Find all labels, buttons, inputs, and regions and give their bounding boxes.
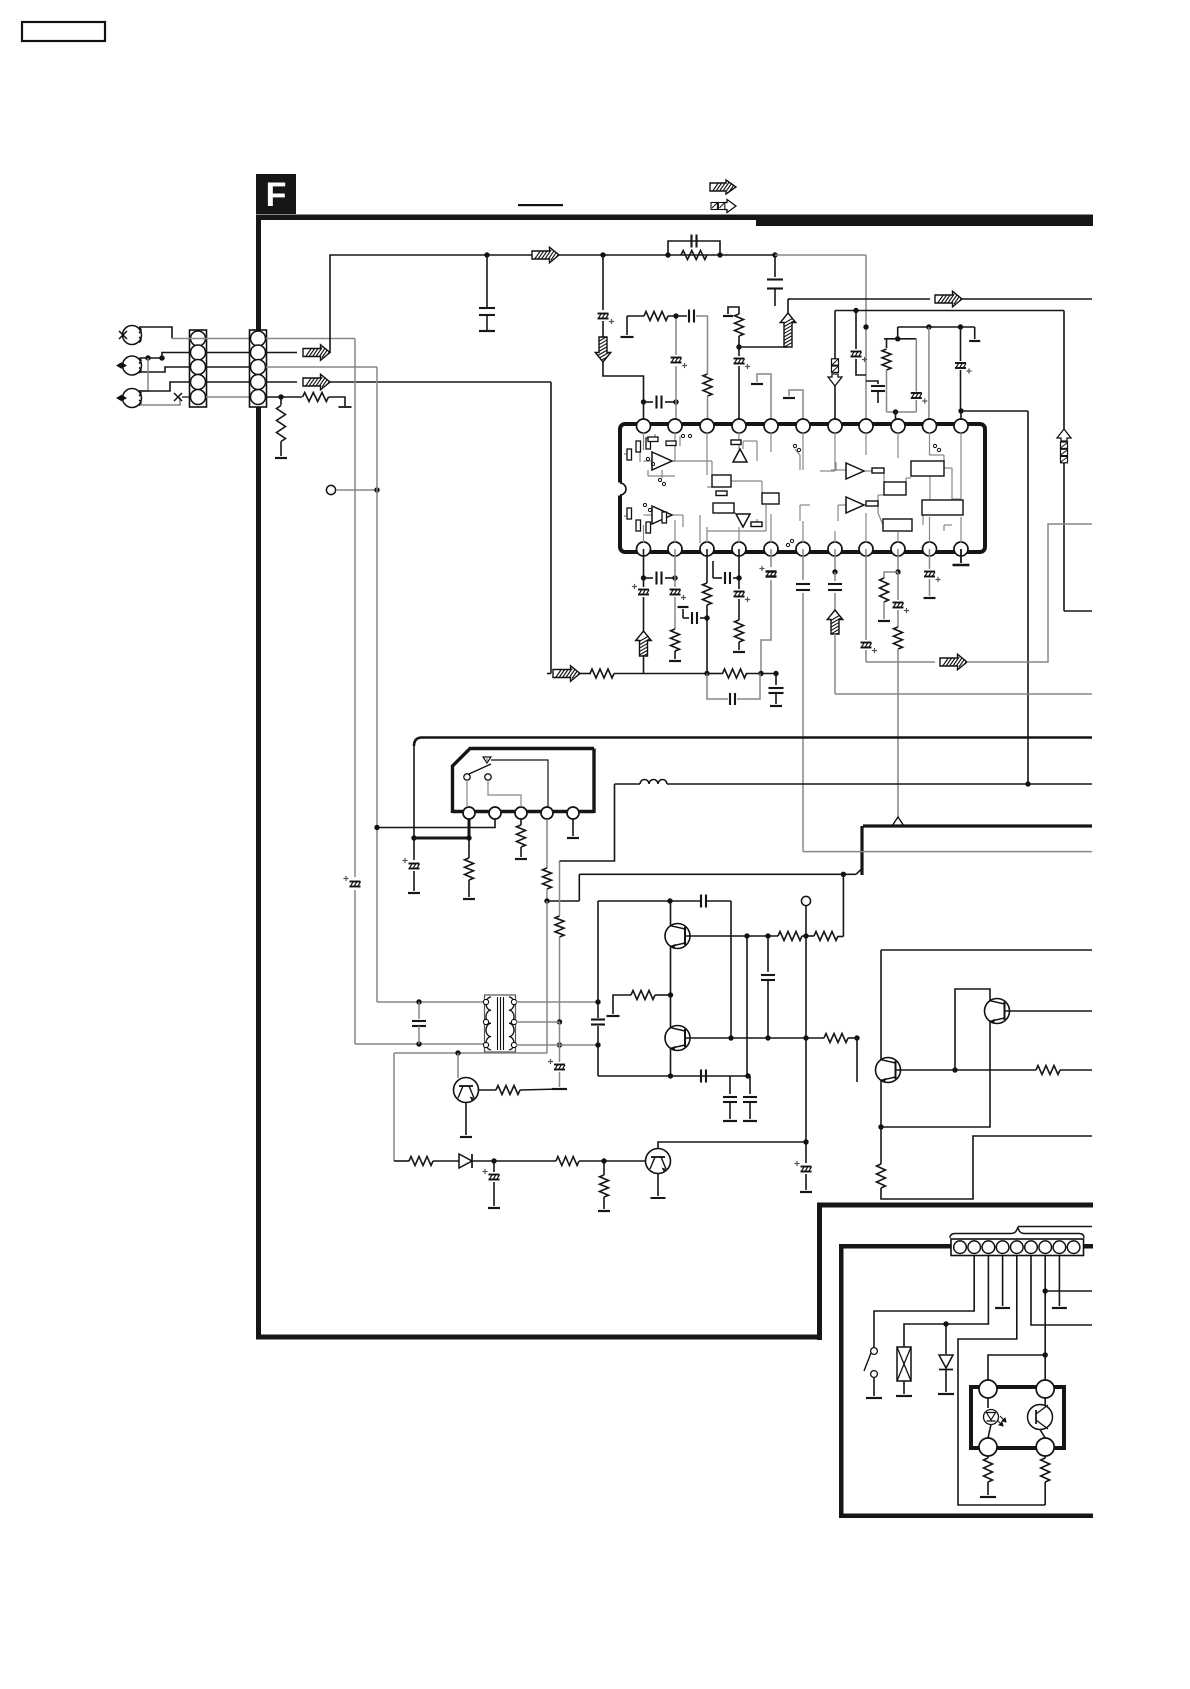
inner box bottom [839,1514,1093,1519]
wire x856 low [856,359,866,375]
capacitor C135 [700,1070,702,1083]
opto pins [979,1380,997,1398]
junction [736,575,741,580]
junction [958,408,963,413]
wire cn3 p6 [1031,1256,1092,1326]
wire y1053 [394,1052,547,1054]
ecap C116 [643,578,645,587]
junction [411,835,416,840]
transistor Q5 [876,1058,901,1083]
wire pin8 top [865,255,867,420]
wire sw p4b [547,900,579,902]
junction [895,336,900,341]
wire rect left [597,901,599,1018]
wire p6 down [802,549,804,580]
resistor R127 [556,1157,579,1166]
junction [765,1035,770,1040]
wire R101 end [329,397,346,406]
wire to arrow1 [266,352,297,354]
resistor R114 [723,669,747,678]
junction [667,898,672,903]
junction [374,825,379,830]
junction [803,1139,808,1144]
capacitor C109 [644,401,654,403]
wire net-C [789,298,930,300]
wire p10 low [929,579,931,596]
wire T1 right bot [516,1044,598,1046]
wire pin1 net [602,255,604,310]
junction [863,324,868,329]
ground [800,1191,812,1193]
wire led bot [988,1425,991,1439]
terminal stub p5 [757,374,771,420]
wire net-F [961,410,1028,412]
wire row b2 [494,1160,556,1162]
wire arrow2 net h [547,673,551,675]
switch triangle [483,757,491,763]
wire p1 down [643,549,645,578]
wire cn3-sw [874,1256,974,1348]
wire p9 long [897,649,899,818]
wire cn3 p4 gnd [1002,1256,1004,1307]
wire TP1 [336,489,377,491]
wire x1028 [1027,411,1029,784]
bus y737 [414,738,1092,747]
wire qr1 out [896,1069,1037,1071]
junction [841,872,846,877]
wire q4 emit [657,1174,659,1197]
wire p2 down [674,549,676,578]
x mark [174,393,182,401]
transistor Q2 [665,1026,690,1051]
wire row bl [394,1160,409,1162]
ecap C139 [493,1161,495,1172]
wire p1 low [643,655,645,674]
junction [466,835,471,840]
wire d-out [472,1160,494,1162]
wire T1 right mid [516,1021,560,1023]
wire net-D out [1064,610,1092,612]
junction [772,252,777,257]
resistor R121 [814,932,838,941]
junction [943,1321,948,1326]
resistor R119 [496,1086,520,1095]
wire r120-121 [802,935,814,937]
terminal bar [339,406,352,408]
capacitor C133 [700,895,702,908]
wire r106-ecap [738,336,740,356]
junction [668,992,673,997]
capacitor C137 [749,1076,751,1094]
ecap C128 [924,571,935,573]
resistor R125 [877,1164,886,1188]
transformer terminals [483,999,488,1004]
ground [878,620,890,622]
wire p4 down [738,549,740,578]
transistor Q6 [985,999,1010,1024]
wire net-A vertical [354,339,356,878]
resistor R117 [543,868,552,889]
border bottom [256,1335,822,1340]
resistor R128 [603,1161,605,1175]
wire sw p4 [546,819,548,868]
wire p7 branch1 [1045,1290,1092,1292]
strip brace [950,1227,1084,1238]
resistor R129 [987,1456,989,1458]
junction [952,1067,957,1072]
wire fuse-gnd [903,1381,905,1394]
wire Q3 coll2 [520,1089,560,1090]
wire net-A [266,338,355,340]
wire CN1-CN2 1 [172,338,249,340]
ecap C122 [738,578,740,589]
switch block S101 outline [453,749,595,814]
door switch S102 [871,1348,878,1355]
resistor R109 [703,583,712,605]
wire to arrow2 [266,381,297,383]
svg-text:F: F [266,176,287,214]
wire x731 [730,901,732,1038]
ground [669,660,681,662]
loop cap [707,674,728,700]
resistor R112 [897,610,899,627]
wire J2 up [162,353,189,359]
junction [673,399,678,404]
bus y826 drop [860,826,863,875]
wire sw p2 [377,819,495,828]
section label F [256,174,296,214]
wire net-B vertical [376,367,378,1002]
wire y851 [803,851,1092,853]
wire J2-CN1 [140,357,162,359]
wire qr1 emit [880,1081,882,1128]
junction [853,308,858,313]
ground [567,837,579,839]
wire rect bottom [598,1075,750,1077]
ecap C110 [671,357,682,359]
ecap C131 [559,1022,561,1062]
wire p6 long [802,593,804,852]
wire p3 low [706,605,708,674]
optocoupler PC101 box [971,1387,1064,1448]
wire row b3 [579,1160,646,1162]
terminal bar [651,1197,666,1199]
junction [854,1035,859,1040]
resistor R123 [824,1034,848,1043]
ic pins top [637,419,651,433]
wire row3 [746,673,776,675]
loop feed [897,327,899,339]
capacitor C134 [767,936,769,972]
wire r113 in [580,673,591,675]
junction [673,313,678,318]
wire qr1 top [880,950,882,1060]
ground [980,1496,996,1498]
junction [704,671,709,676]
wire CN2 pin5 [266,396,302,398]
wire pin1 net3 [603,362,644,402]
wire pt top [1044,1398,1046,1405]
inductor L101 [615,783,641,785]
switch wiring [486,757,488,762]
junction [736,344,741,349]
capacitor C120 [418,1002,420,1019]
terminal stub ne [974,327,976,339]
resistor R111 [884,572,898,578]
wire q1-q2 [670,947,672,1028]
capacitor C107 stub [866,381,878,384]
junction [832,569,837,574]
junction [374,487,379,492]
junction [803,1035,808,1040]
wire pin1 in [643,402,645,420]
transformer T101 body [485,995,516,1052]
ic internal components [652,452,672,470]
junction [484,252,489,257]
transistor Q4 [646,1149,671,1174]
wire r104 l [627,315,644,317]
wire Q2 out [685,1037,824,1039]
ground [479,330,495,332]
wire r104-c [668,315,687,317]
ground [733,651,745,653]
ecap C112 [734,358,745,360]
junction [773,671,778,676]
segmented arrow A12 up [1057,429,1071,441]
wire bus chamfer [856,869,862,875]
wire to arrow A6 [739,346,788,348]
wire x961 b [960,370,962,411]
wire Q2 emit [670,1049,672,1077]
jack J2 [123,356,142,375]
junction [744,933,749,938]
resistor R105 [703,374,712,396]
ecap C126 [861,642,872,644]
wire pin10 top [928,327,930,419]
capacitor C105 stub [774,255,776,277]
junction [758,671,763,676]
terminal stub p6 [789,390,803,420]
ecap C138 [805,1142,807,1163]
wire net-B to T1 [377,1001,484,1003]
connector CN2 [250,330,267,407]
wire q4 coll [658,1142,806,1149]
loop top wire [884,338,916,340]
wire Q3 coll [479,1089,497,1091]
wire net-H out [967,524,1092,662]
ic pins bottom [637,542,651,556]
resistor R124 [1036,1066,1060,1075]
segmented arrow (top note 2) [724,200,736,213]
inner box top [839,1244,1093,1249]
wire pin11 top [960,411,962,419]
thick wire sw [414,837,469,840]
wire qr1 out2 [1060,1069,1092,1071]
junction [672,575,677,580]
wire arrow2 out [330,381,551,383]
junction [728,1035,733,1040]
page frame reference box [22,22,105,41]
wire x856 branch [855,311,857,350]
ecap C127 [897,572,899,600]
junction [278,394,283,399]
wire pin4 in [738,366,740,420]
wire CN1-CN2 5 [206,396,250,398]
resistor R115 [468,838,470,858]
ground [488,1207,500,1209]
wire net-D vert [1063,311,1065,430]
ground [598,1210,610,1212]
junction [544,898,549,903]
ic IC101 body [620,424,985,552]
wire pt bot [1040,1430,1045,1439]
wire net-B [266,366,377,368]
junction [1025,781,1030,786]
wire cn3 p8 gnd [1058,1256,1060,1307]
resistor R106 [735,314,744,336]
ecap C113 [915,339,917,392]
wire pin2 in [675,402,677,420]
wire net-D [835,310,1064,312]
junction [159,355,164,360]
junction [704,615,709,620]
wire x961 [960,327,962,361]
wire qr2 emit [881,1022,990,1128]
phototransistor [1028,1405,1053,1430]
ground [924,597,936,599]
wire Q1 base [670,901,672,926]
wire qr low [880,1127,882,1164]
wire row2 [707,673,723,675]
junction [765,933,770,938]
wire p11 down [960,549,962,563]
wire CN1-CN2 2 [206,352,250,354]
capacitor C136 [729,1076,731,1094]
junction [416,1041,421,1046]
capacitor C132 [591,1018,605,1020]
wire J1-CN1 [139,327,172,339]
border bottom-right top [817,1203,1093,1208]
capacitor C121 [733,577,739,579]
ecap C114 [955,362,966,364]
wire Q3 emit [465,1103,467,1136]
connector CN3 [951,1239,1084,1256]
wire pin7 in [834,386,836,420]
junction [641,399,646,404]
test point TP1 [326,485,335,494]
junction [595,1042,600,1047]
wire pin2 up2 [675,316,677,355]
terminal bar [552,1088,567,1090]
wire arrow2 net vert [550,382,552,674]
resistor R101 [303,393,329,402]
border left [256,215,261,1340]
ground [275,457,287,459]
transistor Q3 [454,1078,479,1103]
ground [866,1397,882,1399]
wire q2 out2 [848,1037,857,1039]
ecap C130 [413,838,415,860]
wire J2-CN1b [140,367,189,372]
capacitor C104 [668,241,720,255]
wire cn3 p7 [1044,1256,1046,1386]
test point TP2 [801,896,810,905]
wire p7 low [834,634,836,694]
ground [896,1395,912,1397]
wire J3-CN1b [140,397,180,405]
jack J1 [123,326,142,345]
wire c111 out [696,316,708,374]
wire pin7 top [834,311,836,363]
wire x747 [746,936,748,1076]
ground [515,858,527,860]
wire p10 down [929,549,931,569]
wire x580 up [578,874,580,901]
resistor R120 [778,932,802,941]
capacitor C125 [828,583,842,585]
wire sw p4 down [546,901,548,1053]
switch contacts [464,774,470,780]
wire brace out [1018,1226,1092,1228]
junction [557,1042,562,1047]
wire x955 [955,989,990,1070]
wire T1 right top [516,1001,598,1003]
wire Q3 base [457,1053,459,1078]
capacitor C124 [796,583,810,585]
fuse F101 [897,1347,911,1381]
junction [926,324,931,329]
junction [665,252,670,257]
ground [995,1307,1010,1309]
junction [600,252,605,257]
ground [770,705,782,707]
terminal stub p4 [728,307,739,314]
switch block pins [463,807,475,819]
ecap C108 [598,313,609,315]
junction [601,1158,606,1163]
wire r122 [655,994,671,996]
transistor Q1 [665,924,690,949]
wire qr low2 [881,1136,1092,1199]
wire p8 down [865,549,867,640]
ecap C119 [350,881,361,883]
wire rect top [598,900,700,902]
ground [463,898,475,900]
wire bus-1 [330,255,775,353]
junction [893,409,898,414]
bus y826 [863,824,1092,827]
resistor R103 [681,251,707,260]
wire p5 down [770,549,772,567]
junction [595,999,600,1004]
junction [878,1124,883,1129]
wire bus drop [413,746,415,838]
wire p5 low [761,580,771,674]
wire cn3 p5 loop [958,1256,1045,1506]
wire J3-CN1 [140,382,189,391]
capacitor C115 [644,577,654,579]
junction [895,569,900,574]
wire net-H [866,661,935,663]
segmented arrow A7 [828,374,842,386]
ecap C117 [674,578,676,587]
wire q1 net out [838,936,843,938]
title underline [518,204,563,206]
resistor R116 [520,819,522,825]
resistor R113 [590,669,614,678]
junction [641,575,646,580]
ground bold [953,564,970,567]
